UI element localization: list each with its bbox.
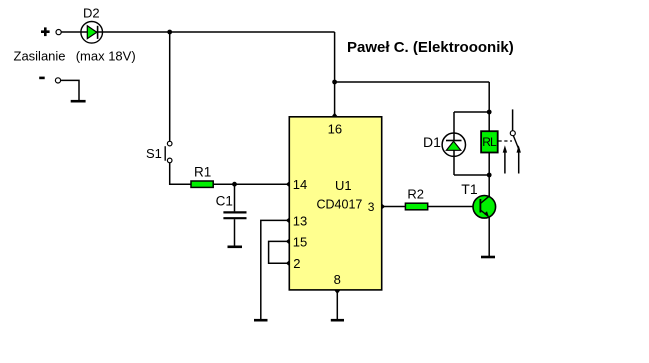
IC U1 CD4017 body [289,117,381,290]
ground (pin 13) [254,319,268,322]
pin 2 marker [286,260,290,266]
plus sign [41,27,50,36]
svg-text:D2: D2 [83,5,100,20]
pin 8 marker [334,290,341,294]
svg-text:3: 3 [368,200,375,214]
svg-text:S1: S1 [146,146,162,161]
relay switch pivot [510,131,515,136]
wire C1 to ground [234,219,236,246]
ground (pin 8) [331,319,344,322]
svg-text:R1: R1 [194,165,211,180]
wire pin 13 to ground [261,220,290,319]
wire R1 to pin 14 [213,183,289,185]
svg-text:R2: R2 [407,186,424,201]
wire D1 top branch [454,111,489,113]
junction node D1-RL bottom [487,173,492,178]
wire S1 bottom to R1 [170,163,191,185]
diode D2 circle [81,22,103,44]
svg-text:13: 13 [293,214,307,229]
svg-text:8: 8 [334,272,341,287]
svg-text:CD4017: CD4017 [317,197,363,211]
transistor T1 emitter arrow [484,211,489,217]
transistor T1 collector stroke [480,196,489,204]
wire horizontal y=82 [335,81,490,83]
wire RL bottom to junction [488,153,490,176]
wire junction to C1 [234,184,236,211]
transistor T1 base bar [479,199,481,213]
wire S1 top lead [169,32,171,141]
transistor T1 body [473,196,496,219]
svg-text:Zasilanie: Zasilanie [14,49,66,64]
ground (emitter T1) [481,256,495,259]
svg-text:D1: D1 [423,134,441,150]
pin 3 marker [382,203,386,209]
terminal + circle [56,29,61,34]
switch S1 actuator bar [164,146,166,161]
relay contact left arrow [503,145,507,173]
ground (C1) [228,246,243,249]
junction node top-left [167,30,172,35]
wire D1 top lead [453,112,455,140]
svg-text:15: 15 [293,235,307,250]
svg-text:T1: T1 [461,181,478,197]
svg-text:(max 18V): (max 18V) [76,49,136,64]
ground (minus terminal) [71,100,86,103]
diode D1 cathode bar [446,140,462,142]
wire collector lead [488,175,490,198]
wire minus terminal [61,80,79,100]
minus sign [39,77,45,80]
wire pin 15 to pin 2 bracket [269,241,290,263]
pin 13 marker [286,217,290,223]
wire pin 3 to R2 [382,206,406,208]
wire relay switch common [512,109,514,130]
capacitor C1 [223,212,246,218]
svg-text:14: 14 [293,177,307,192]
svg-text:16: 16 [328,122,342,137]
resistor R2 [405,203,427,210]
svg-text:2: 2 [293,256,300,271]
terminal - circle [55,78,60,83]
relay contact dashed link [499,140,513,142]
diode D1 triangle [446,141,460,150]
switch S1 top contact [167,141,172,146]
wire top rail + through D2 [61,31,334,33]
pin 14 marker [286,181,290,187]
resistor R1 [191,181,213,187]
svg-text:Paweł C. (Elektrooonik): Paweł C. (Elektrooonik) [347,39,514,56]
switch S1 bottom contact [167,158,172,163]
svg-text:C1: C1 [216,194,233,209]
wire D1 to junction bottom [454,174,489,176]
diode D1 circle [442,133,465,156]
svg-text:RL: RL [482,135,497,149]
LED D2 cathode bar [97,26,99,39]
transistor T1 emitter stroke [480,210,488,216]
pin 16 marker [331,113,338,117]
wire R2 to base [428,206,474,208]
junction node D1-RL top [487,110,492,115]
svg-text:U1: U1 [335,178,352,193]
wire pin 8 to ground [336,290,338,319]
relay switch blade [513,136,519,151]
wire emitter to ground [488,216,490,256]
relay contact right arrow [517,145,521,173]
pin 15 marker [286,238,290,244]
wire vertical to pin 16 [334,32,336,117]
LED D2 triangle [87,26,97,39]
wire vertical right rail down to RL [488,82,490,131]
wire D1 bottom lead [453,150,455,175]
junction node rail [332,80,337,85]
junction node R1-C1 [232,182,237,187]
relay coil RL [481,131,498,152]
